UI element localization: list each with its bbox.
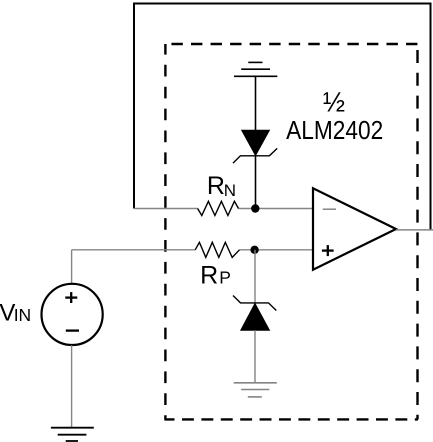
op-amp plus pin symbol xyxy=(322,245,334,256)
label RP xyxy=(200,262,231,290)
label RN xyxy=(207,172,236,200)
wire inverting input (right segment) xyxy=(239,208,314,210)
svg-text:R: R xyxy=(207,172,225,200)
wire ground to zener D1 xyxy=(255,76,257,130)
node junction dot (inverting input) xyxy=(251,204,259,212)
dashed box U1 ALM2402 boundary xyxy=(164,44,418,419)
wire inverting input (left segment) xyxy=(134,208,198,210)
ground (top, supply rail) xyxy=(234,62,277,76)
wire node to zener D2 xyxy=(254,250,256,303)
zener diode D1 (cathode down) xyxy=(233,130,277,163)
wire feedback loop (output to inverting input) xyxy=(134,4,431,230)
voltage source VIN xyxy=(42,284,103,345)
svg-text:IN: IN xyxy=(14,305,32,325)
wire noninverting input (left segment) xyxy=(72,249,196,251)
source minus sign xyxy=(66,329,79,331)
resistor RN xyxy=(198,201,239,215)
svg-text:½: ½ xyxy=(323,86,345,118)
node junction dot (noninverting input) xyxy=(250,246,258,254)
svg-text:ALM2402: ALM2402 xyxy=(286,117,383,146)
svg-text:R: R xyxy=(200,262,218,290)
wire VIN to ground xyxy=(71,345,73,428)
label VIN xyxy=(0,299,31,326)
ground (VIN) xyxy=(51,428,94,441)
op-amp minus pin symbol xyxy=(323,208,336,210)
svg-text:N: N xyxy=(224,181,236,200)
source plus sign xyxy=(65,292,77,303)
wire output xyxy=(396,229,433,231)
wire noninverting input (right segment) xyxy=(240,249,314,251)
svg-text:P: P xyxy=(219,268,231,288)
op-amp U1 (1/2 ALM2402) xyxy=(313,188,396,269)
zener diode D2 (cathode up) xyxy=(233,296,276,331)
wire zener D1 to node xyxy=(255,156,257,209)
wire zener D2 to ground xyxy=(254,330,256,383)
resistor RP xyxy=(195,242,239,257)
ground (below zener D2) xyxy=(234,383,277,397)
wire VIN to noninverting input xyxy=(71,250,73,283)
